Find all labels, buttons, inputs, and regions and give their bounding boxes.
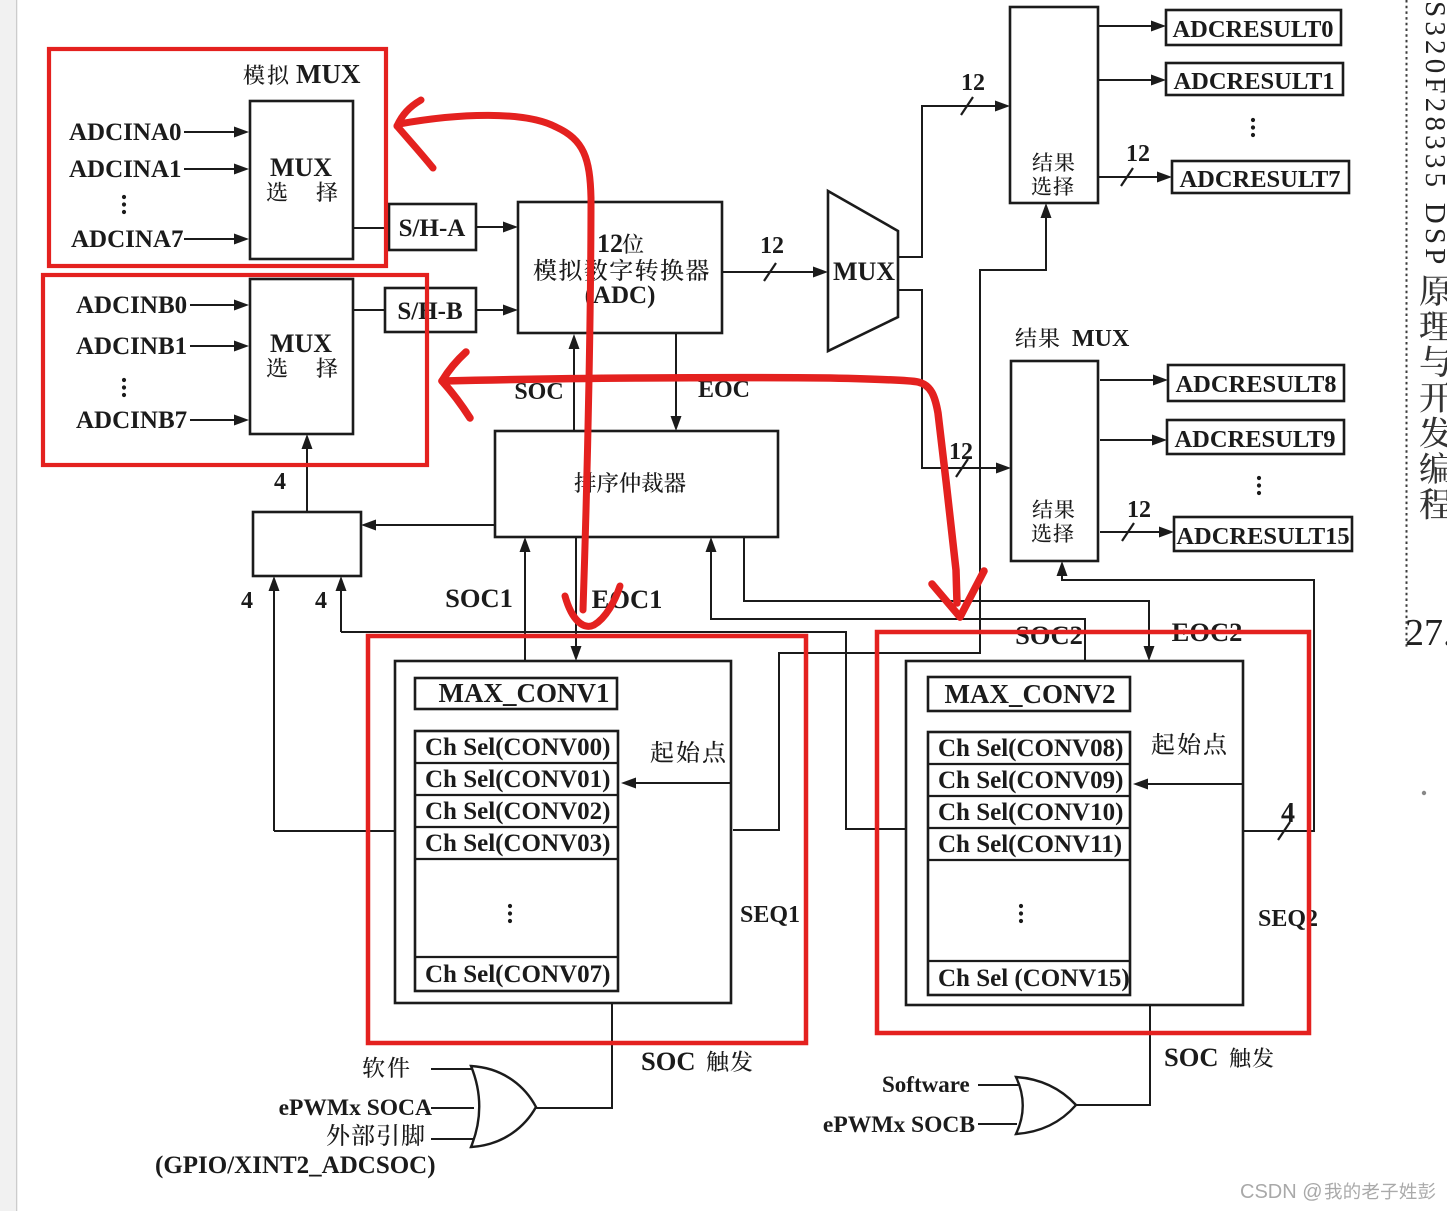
divider rows CONV08-11 and CONV15 xyxy=(928,764,1130,961)
svg-text:MUX: MUX xyxy=(833,257,895,286)
svg-text:4: 4 xyxy=(274,469,286,495)
svg-text:Ch Sel(CONV00): Ch Sel(CONV00) xyxy=(425,734,610,761)
register ADCRESULT1 xyxy=(1166,63,1343,95)
svg-text:12: 12 xyxy=(597,229,623,258)
wire SOC arbiter to ADC xyxy=(573,347,575,431)
wire ADCINB0 to MUX-B xyxy=(190,304,236,306)
svg-text:ADCRESULT0: ADCRESULT0 xyxy=(1172,16,1333,43)
svg-text:Ch Sel(CONV07): Ch Sel(CONV07) xyxy=(425,961,610,988)
label wei (bit) in ADC xyxy=(622,233,643,253)
OR gate 1 (SOC trigger A) xyxy=(471,1066,536,1147)
wire input external-pin to OR-gate-1 xyxy=(431,1138,477,1140)
dots ADCINB column xyxy=(122,378,126,382)
svg-text:ADCINA7: ADCINA7 xyxy=(71,226,184,253)
svg-text:MAX_CONV2: MAX_CONV2 xyxy=(945,679,1116,709)
dots sequencer1 stack xyxy=(508,904,512,908)
label result-select-1 line2 xyxy=(1032,177,1051,196)
sidebar char 程 xyxy=(1420,488,1447,519)
svg-text:EOC1: EOC1 xyxy=(592,584,663,614)
svg-text:MUX: MUX xyxy=(1072,326,1130,352)
box sequencer1 SEQ1 outer xyxy=(395,661,731,1003)
box sequencing arbiter xyxy=(495,431,778,537)
register MAX_CONV2 xyxy=(928,677,1130,711)
sidebar char 编 xyxy=(1420,452,1447,484)
red annotation rectangle around analog MUX A xyxy=(49,49,386,266)
wire MUX-B to S/H-B xyxy=(353,309,385,311)
OR gate 2 (SOC trigger B) xyxy=(1016,1077,1076,1134)
svg-text:Software: Software xyxy=(882,1072,970,1097)
svg-text:ePWMx SOCB: ePWMx SOCB xyxy=(823,1112,975,1138)
svg-text:Ch Sel(CONV11): Ch Sel(CONV11) xyxy=(938,831,1122,858)
sidebar small mark xyxy=(1422,791,1426,795)
svg-text:MAX_CONV1: MAX_CONV1 xyxy=(439,678,610,708)
bus MUX upper output to result-select-1, 12 bits xyxy=(898,106,997,257)
label result-select-1 line1 xyxy=(1033,152,1053,171)
sidebar char 原 xyxy=(1420,275,1447,306)
label ze in MUX-B xyxy=(317,357,338,377)
register ADCRESULT9 xyxy=(1167,420,1344,454)
sidebar char 理 xyxy=(1420,311,1447,340)
wire input Software to OR-gate-2 xyxy=(978,1084,1021,1086)
dots sequencer2 stack xyxy=(1019,904,1023,908)
bus SEQ1 pointer to channel-select box, 4 bits xyxy=(274,589,395,831)
bus SEQ2 pointer to channel-select box, 4 bits xyxy=(341,589,906,829)
label moni (analog MUX title) xyxy=(244,65,265,85)
svg-text:ADCRESULT9: ADCRESULT9 xyxy=(1174,426,1335,453)
wire ADCINB1 to MUX-B xyxy=(190,345,236,347)
sidebar char 发 xyxy=(1420,417,1447,449)
svg-text:ADCRESULT8: ADCRESULT8 xyxy=(1175,371,1336,398)
svg-text:Ch Sel(CONV09): Ch Sel(CONV09) xyxy=(938,767,1123,794)
svg-text:(ADC): (ADC) xyxy=(585,282,656,309)
dots ADCRESULT8-15 column xyxy=(1257,476,1261,480)
register MAX_CONV1 xyxy=(415,678,617,709)
box channel select combiner xyxy=(253,512,361,576)
svg-text:ADCINB0: ADCINB0 xyxy=(76,292,187,319)
label ze in MUX-A xyxy=(317,181,338,201)
wire SOC1 sequencer1 to arbiter xyxy=(524,550,526,661)
svg-text:S320F28335 DSP: S320F28335 DSP xyxy=(1419,1,1447,269)
svg-text:Ch Sel (CONV15): Ch Sel (CONV15) xyxy=(938,965,1130,992)
register ADCRESULT0 xyxy=(1166,10,1341,45)
label trigger of SOC-trigger-2 xyxy=(1230,1047,1250,1067)
svg-text:27.: 27. xyxy=(1405,612,1447,654)
red hand-drawn arrow 2 (to analog MUX B / down to SEQ2) xyxy=(442,352,984,617)
register ADCRESULT15 xyxy=(1174,517,1352,551)
box result-select-2 xyxy=(1011,361,1098,561)
svg-text:ADCRESULT7: ADCRESULT7 xyxy=(1179,166,1340,193)
page sidebar dashed rule xyxy=(1406,0,1408,648)
svg-text:ePWMx SOCA: ePWMx SOCA xyxy=(279,1095,432,1121)
bus result-select-2 to ADCRESULT15, 12 bits xyxy=(1100,531,1161,533)
label result-select-2 line1 xyxy=(1033,499,1053,518)
wire start-pointer arrow into CONV09 xyxy=(1146,783,1243,785)
dots ADCRESULT0-7 column xyxy=(1251,118,1255,122)
svg-text:S/H-B: S/H-B xyxy=(397,298,462,325)
svg-text:MUX: MUX xyxy=(270,153,332,182)
red annotation rectangle around SEQ2 xyxy=(877,632,1309,1033)
bus ADC to MUX, 12 bits xyxy=(722,271,815,273)
svg-text:12: 12 xyxy=(949,439,973,465)
label xuan-ze in MUX-A xyxy=(267,182,287,202)
MUX trapezoid xyxy=(828,191,898,351)
label software (ruanjian) xyxy=(363,1057,385,1078)
bus result-select-1 to ADCRESULT7, 12 bits xyxy=(1098,176,1159,178)
watermark name xyxy=(1325,1183,1342,1200)
box S/H-A xyxy=(389,204,476,250)
wire result-select-1 to ADCRESULT1 xyxy=(1098,79,1153,81)
wire EOC2 arbiter to sequencer2 xyxy=(744,537,1149,648)
svg-text:Ch Sel(CONV10): Ch Sel(CONV10) xyxy=(938,799,1123,826)
stack channel select CONV00-07 xyxy=(415,731,618,991)
bus channel-select box to MUX-B, 4 bits xyxy=(306,447,308,512)
wire ADCINB7 to MUX-B xyxy=(190,419,236,421)
wire result-select-1 to ADCRESULT0 xyxy=(1098,25,1153,27)
sidebar char 与 xyxy=(1420,346,1447,377)
dots ADCINA column xyxy=(122,195,126,199)
svg-text:4: 4 xyxy=(241,588,253,614)
svg-text:12: 12 xyxy=(961,70,985,96)
wire SOC2 sequencer2 to arbiter xyxy=(711,550,1085,661)
svg-text:(GPIO/XINT2_ADCSOC): (GPIO/XINT2_ADCSOC) xyxy=(155,1152,436,1179)
wire MUX-A to S/H-A xyxy=(353,227,389,229)
red annotation rectangle around analog MUX B xyxy=(43,275,427,465)
svg-text:12: 12 xyxy=(760,233,784,259)
bus MUX lower output to result-select-2, 12 bits xyxy=(898,290,998,468)
wire result-select-2 to ADCRESULT9 xyxy=(1100,439,1154,441)
svg-text:SOC2: SOC2 xyxy=(1015,620,1083,650)
red annotation rectangle around SEQ1 xyxy=(368,636,806,1043)
register ADCRESULT7 xyxy=(1172,161,1349,193)
svg-text:MUX: MUX xyxy=(296,59,361,89)
label result MUX title xyxy=(1016,328,1037,348)
svg-text:4: 4 xyxy=(315,588,327,614)
label external pin xyxy=(327,1124,349,1146)
svg-text:SOC: SOC xyxy=(1164,1042,1219,1072)
svg-text:Ch Sel(CONV08): Ch Sel(CONV08) xyxy=(938,735,1123,762)
svg-text:CSDN @: CSDN @ xyxy=(1240,1181,1323,1203)
wire result-select-2 to ADCRESULT8 xyxy=(1100,379,1155,381)
svg-text:Ch Sel(CONV02): Ch Sel(CONV02) xyxy=(425,798,610,825)
label analog-digital-converter xyxy=(534,259,557,281)
label start-point 1 xyxy=(651,741,674,763)
svg-text:ADCRESULT15: ADCRESULT15 xyxy=(1176,523,1349,550)
box MUX-B channel select xyxy=(250,279,353,434)
svg-text:12: 12 xyxy=(1126,141,1150,167)
wire input soft-trigger to OR-gate-1 xyxy=(431,1068,477,1070)
svg-text:Ch Sel(CONV01): Ch Sel(CONV01) xyxy=(425,766,610,793)
divider rows CONV00-03 and CONV07 xyxy=(415,763,618,957)
svg-text:ADCINA0: ADCINA0 xyxy=(69,119,182,146)
svg-text:Ch Sel(CONV03): Ch Sel(CONV03) xyxy=(425,830,610,857)
box sequencer2 SEQ2 outer xyxy=(906,661,1243,1005)
box S/H-B xyxy=(385,288,476,332)
svg-text:S/H-A: S/H-A xyxy=(399,215,466,242)
wire input ePWMx SOCA to OR-gate-1 xyxy=(431,1107,474,1109)
sidebar char 开 xyxy=(1420,382,1447,412)
svg-text:SOC1: SOC1 xyxy=(445,583,513,613)
wire input ePWMx SOCB to OR-gate-2 xyxy=(978,1123,1017,1125)
label xuan-ze in MUX-B xyxy=(267,358,287,378)
red hand-drawn arrow 1 (to analog MUX A) xyxy=(397,100,620,626)
bus sequencer1 result to result-select-1 xyxy=(733,216,1046,830)
svg-text:SOC: SOC xyxy=(641,1046,696,1076)
left page margin strip xyxy=(0,0,15,1211)
label result-select-2 line2 xyxy=(1032,524,1051,543)
wire ADCINA1 to MUX-A xyxy=(184,168,236,170)
wire ADCINA0 to MUX-A xyxy=(184,131,236,133)
box 12-bit ADC xyxy=(518,202,722,333)
label trigger of SOC-trigger-1 xyxy=(707,1051,728,1072)
svg-text:ADCINB1: ADCINB1 xyxy=(76,333,187,360)
wire S/H-B to ADC xyxy=(476,309,505,311)
svg-text:12: 12 xyxy=(1127,497,1151,523)
wire arbiter to channel-select box xyxy=(374,524,495,526)
svg-text:4: 4 xyxy=(1281,798,1295,829)
svg-text:SEQ1: SEQ1 xyxy=(740,902,800,928)
wire OR-gate-1 output SOC trigger to sequencer1 xyxy=(534,1003,612,1108)
bus sequencer2 result to result-select-2, 4 bits xyxy=(1062,574,1314,831)
svg-text:MUX: MUX xyxy=(270,329,332,358)
stack channel select CONV08-15 xyxy=(928,732,1130,995)
register ADCRESULT8 xyxy=(1168,365,1344,401)
box MUX-A channel select xyxy=(250,101,353,259)
label start-point 2 xyxy=(1152,733,1175,755)
wire ADCINA7 to MUX-A xyxy=(184,238,236,240)
wire EOC1 arbiter to sequencer1 xyxy=(575,537,577,648)
svg-text:ADCINB7: ADCINB7 xyxy=(76,407,187,434)
wire OR-gate-2 output SOC trigger to sequencer2 xyxy=(1076,1005,1150,1105)
wire S/H-A to ADC xyxy=(476,226,505,228)
svg-text:ADCINA1: ADCINA1 xyxy=(69,156,182,183)
label sequencing arbiter xyxy=(575,472,596,493)
svg-text:ADCRESULT1: ADCRESULT1 xyxy=(1173,68,1334,95)
box result-select-1 xyxy=(1010,7,1098,203)
wire EOC ADC to arbiter xyxy=(675,333,677,418)
wire start-pointer arrow into CONV01 xyxy=(634,782,731,784)
